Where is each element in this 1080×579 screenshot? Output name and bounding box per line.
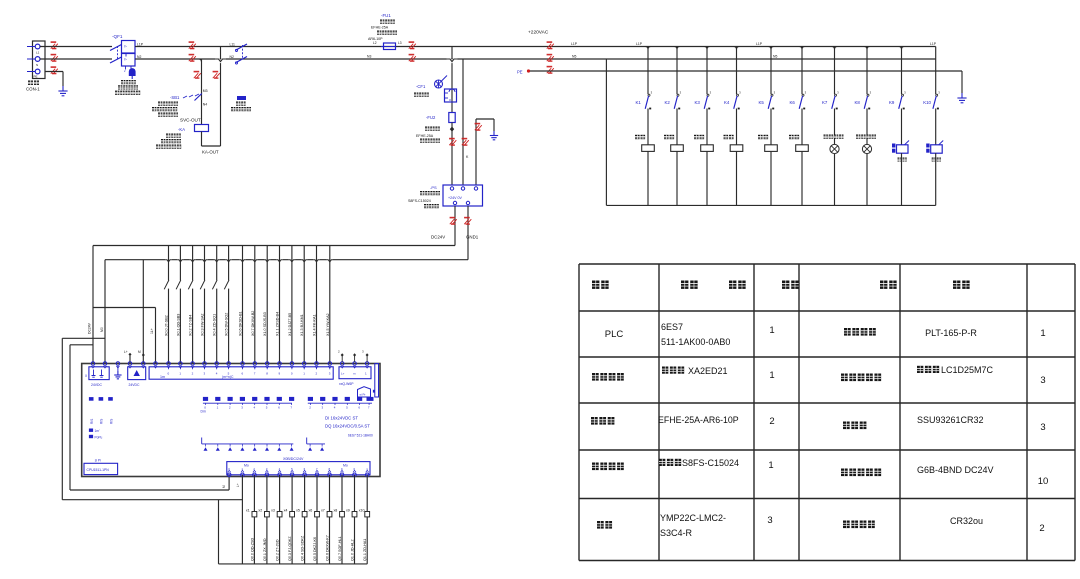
wire coil return rail <box>606 204 935 206</box>
svg-text:9: 9 <box>279 372 281 376</box>
svg-text:S8FS-C15024: S8FS-C15024 <box>408 199 431 203</box>
svg-text:PE: PE <box>34 75 38 79</box>
red label on PE <box>547 66 554 74</box>
svg-text:M0: M0 <box>100 327 104 332</box>
wire input X10 <box>288 246 292 364</box>
svg-text:GND1: GND1 <box>466 235 479 240</box>
svg-text:K5: K5 <box>759 100 765 105</box>
svg-text:5: 5 <box>346 406 348 410</box>
wire 0V rail <box>105 259 468 261</box>
svg-text:S3C4-R: S3C4-R <box>660 528 693 538</box>
wire fuse to PSU <box>451 123 453 186</box>
svg-text:1m: 1m <box>160 375 165 379</box>
svg-text:N4: N4 <box>203 103 207 107</box>
svg-text:K4: K4 <box>724 100 730 105</box>
ground (input PE) <box>58 86 67 96</box>
svg-text:K2: K2 <box>665 100 671 105</box>
svg-text:N3: N3 <box>367 55 371 59</box>
wire hop over N <box>447 59 458 62</box>
wire loop bottom <box>201 132 203 147</box>
contactor branch K9 <box>889 47 909 206</box>
svg-text:M: M <box>138 350 141 354</box>
svg-text:o: o <box>449 98 451 102</box>
svg-text:3: 3 <box>710 91 712 95</box>
svg-text:3: 3 <box>774 91 776 95</box>
svg-text:si Pr: si Pr <box>360 393 366 397</box>
svg-text:-PS: -PS <box>430 185 437 190</box>
DQ pin bracket <box>307 438 325 451</box>
wire loop 0V to bottom rail <box>62 337 105 339</box>
wire L rail <box>135 46 936 48</box>
ground (PE right) <box>957 93 966 103</box>
wire 0V drop <box>104 260 106 364</box>
PLC U1 outline <box>82 364 380 477</box>
svg-text:K8: K8 <box>855 100 861 105</box>
svg-text:si Pr: si Pr <box>95 459 102 463</box>
svg-text:XA2ED21: XA2ED21 <box>688 366 728 376</box>
svg-text:6ES7 521-1BH00: 6ES7 521-1BH00 <box>348 434 373 438</box>
svg-text:1: 1 <box>1040 328 1045 339</box>
svg-text:Dm: Dm <box>201 410 206 414</box>
svg-text:CON-1: CON-1 <box>26 87 40 92</box>
svg-text:PLT-165-P-R: PLT-165-P-R <box>925 328 977 338</box>
DI pin bracket <box>202 438 294 451</box>
DI LED group <box>201 397 295 414</box>
wire SB1 drop <box>201 59 203 125</box>
svg-text:L11: L11 <box>230 43 236 47</box>
svg-text:I>: I> <box>124 58 127 62</box>
svg-text:x6: x6 <box>309 509 313 513</box>
svg-text:3: 3 <box>322 406 324 410</box>
svg-text:M3: M3 <box>203 89 208 93</box>
svg-text:1: 1 <box>769 325 774 336</box>
svg-text:x8: x8 <box>334 509 338 513</box>
svg-text:+24V 0V: +24V 0V <box>448 196 462 200</box>
wire input X9 <box>276 246 280 364</box>
svg-text:6: 6 <box>358 406 360 410</box>
ground (PSU PE) <box>490 131 498 140</box>
wire loop right riser <box>220 47 222 147</box>
svg-text:SVC-OUT: SVC-OUT <box>180 118 201 123</box>
svg-text:3: 3 <box>362 350 364 354</box>
svg-text:4: 4 <box>279 467 281 471</box>
svg-text:L1: L1 <box>36 51 40 55</box>
wire output Q2 with relay contact x3 <box>271 475 282 564</box>
svg-text:L2: L2 <box>373 41 377 45</box>
svg-text:0: 0 <box>354 467 356 471</box>
svg-text:L+: L+ <box>236 483 240 487</box>
svg-text:X0.6 DKSD-B1: X0.6 DKSD-B1 <box>239 311 243 336</box>
svg-text:3: 3 <box>204 372 206 376</box>
red labels above PSU <box>449 138 456 146</box>
contactor branch K10 <box>923 47 943 206</box>
svg-text:K7: K7 <box>822 100 828 105</box>
wire aux branch <box>93 307 156 309</box>
red wire labels at source <box>51 41 58 49</box>
svg-text:6ES7: 6ES7 <box>661 322 683 332</box>
stub L+ <box>129 356 131 364</box>
svg-text:X0B/DC/24V: X0B/DC/24V <box>283 457 304 461</box>
svg-text:L3: L3 <box>398 41 402 45</box>
svg-text:3: 3 <box>1040 375 1045 386</box>
svg-text:X0.7 DKXW-B2: X0.7 DKXW-B2 <box>251 311 255 336</box>
PLC right bar <box>375 364 379 398</box>
wire input X7 <box>251 246 255 364</box>
wire output Q3 with relay contact x4 <box>284 475 295 564</box>
svg-text:3: 3 <box>1040 422 1045 433</box>
wire output Q5 with relay contact x6 <box>309 475 320 564</box>
svg-text:YMP22C-LMC2-: YMP22C-LMC2- <box>660 513 726 523</box>
svg-text:7: 7 <box>254 372 256 376</box>
svg-text:1m': 1m' <box>95 429 100 433</box>
wire hop on N rail <box>215 59 226 62</box>
wire M feed <box>142 260 144 364</box>
wire input X11 <box>300 246 304 364</box>
wire input X2 <box>188 246 193 364</box>
svg-text:24VDC: 24VDC <box>129 383 140 387</box>
svg-text:4: 4 <box>254 406 256 410</box>
svg-text:1: 1 <box>768 460 773 471</box>
ground (PLC) <box>117 366 119 371</box>
contactor branch K3 <box>694 47 713 206</box>
svg-text:X1.5 YW-KA2: X1.5 YW-KA2 <box>326 313 330 336</box>
svg-text:X0.4 ZD-SQ1: X0.4 ZD-SQ1 <box>213 314 217 336</box>
wire N rail <box>135 58 936 60</box>
svg-text:3: 3 <box>651 91 653 95</box>
svg-text:R/S: R/S <box>90 419 94 424</box>
svg-text:Q0.1 ZX-JMD: Q0.1 ZX-JMD <box>263 538 267 561</box>
svg-text:x10: x10 <box>359 509 365 513</box>
svg-text:5: 5 <box>291 467 293 471</box>
svg-text:X0.3 FW-SA2: X0.3 FW-SA2 <box>201 314 205 336</box>
contactor branch K2 <box>664 47 683 206</box>
wire output Q7 with relay contact x8 <box>334 475 345 564</box>
svg-text:x7: x7 <box>321 509 325 513</box>
svg-text:6: 6 <box>242 372 244 376</box>
svg-text:Mo: Mo <box>343 464 348 468</box>
svg-text:1L+: 1L+ <box>150 328 154 334</box>
svg-text:N2: N2 <box>137 55 141 59</box>
svg-text:3: 3 <box>938 91 940 95</box>
svg-text:x3: x3 <box>271 509 275 513</box>
svg-text:LC1D25M7C: LC1D25M7C <box>941 365 994 375</box>
wire input X4 <box>212 246 217 364</box>
svg-text:10: 10 <box>1038 476 1049 487</box>
svg-text:1: 1 <box>769 370 774 381</box>
svg-text:2: 2 <box>192 372 194 376</box>
svg-text:G6B-4BND DC24V: G6B-4BND DC24V <box>917 465 994 475</box>
fuse FU2 <box>426 113 455 123</box>
svg-text:S8FS-C15024: S8FS-C15024 <box>682 458 739 468</box>
svg-text:(m+n)C: (m+n)C <box>222 375 234 379</box>
svg-text:9: 9 <box>341 467 343 471</box>
filter CF1 <box>416 76 457 103</box>
svg-text:L1P: L1P <box>571 42 578 46</box>
fuse FU1 <box>381 13 396 50</box>
wire 24V rail <box>93 245 455 247</box>
PLC input terminal strip <box>149 367 333 379</box>
svg-text:EFHE-25A: EFHE-25A <box>371 26 389 30</box>
wire bottom return rail <box>219 563 368 565</box>
contactor branch K6 <box>789 47 808 206</box>
svg-text:3: 3 <box>805 91 807 95</box>
PLC output block <box>339 367 371 386</box>
svg-text:+220VAC: +220VAC <box>528 30 549 36</box>
svg-text:X0.5 DW-SQ2: X0.5 DW-SQ2 <box>225 313 229 336</box>
wire input X1 <box>176 246 181 364</box>
svg-text:K3: K3 <box>695 100 701 105</box>
svg-text:L1P: L1P <box>756 42 763 46</box>
svg-text:PLC: PLC <box>605 329 624 340</box>
pushbutton SB1 <box>170 94 202 101</box>
wire input X6 <box>239 246 243 364</box>
svg-text:M: M <box>222 485 226 488</box>
svg-text:Q0.2 ZT-JSD: Q0.2 ZT-JSD <box>276 539 280 561</box>
breaker QF1 <box>110 34 140 95</box>
wire input X8 <box>263 246 267 364</box>
wire hops on 0V rail <box>165 260 333 262</box>
PLC top pins <box>91 362 369 368</box>
svg-text:3: 3 <box>329 372 331 376</box>
svg-text:1: 1 <box>217 406 219 410</box>
svg-text:Q0.0 QD-ZSD: Q0.0 QD-ZSD <box>250 538 254 561</box>
output module stubs <box>338 350 369 362</box>
wire drop L to PSU <box>451 47 453 113</box>
svg-text:PE: PE <box>517 70 523 75</box>
svg-text:DI 16x24VDC ST: DI 16x24VDC ST <box>325 416 358 421</box>
svg-text:K10: K10 <box>923 100 931 105</box>
svg-text:3: 3 <box>241 406 243 410</box>
svg-text:-FU2: -FU2 <box>426 115 436 120</box>
svg-text:L+: L+ <box>341 372 345 376</box>
svg-text:3: 3 <box>266 467 268 471</box>
PE stub to ground <box>475 119 477 185</box>
svg-text:8: 8 <box>266 372 268 376</box>
svg-text:2: 2 <box>309 406 311 410</box>
PLC 24V block <box>128 367 146 387</box>
selector switch SA1 <box>235 44 247 64</box>
svg-text:I>: I> <box>124 45 127 49</box>
svg-text:x4: x4 <box>284 509 288 513</box>
memory card icon <box>358 387 371 397</box>
svg-text:L1P: L1P <box>137 43 144 47</box>
svg-text:7: 7 <box>368 406 370 410</box>
wire L1 <box>40 46 112 48</box>
terminal block CON1 <box>33 41 46 79</box>
contactor branch K8 <box>855 47 877 206</box>
svg-text:2: 2 <box>316 372 318 376</box>
svg-text:X1.0 SDJS-B3: X1.0 SDJS-B3 <box>263 312 267 336</box>
wire input X13 <box>326 246 330 364</box>
svg-text:K1: K1 <box>636 100 642 105</box>
svg-text:K: K <box>466 155 469 159</box>
contactor branch K7 <box>822 47 844 206</box>
svg-text:3: 3 <box>680 91 682 95</box>
wire DQ common <box>241 475 243 564</box>
DQ LED group <box>308 397 374 410</box>
svg-text:1: 1 <box>179 372 181 376</box>
power supply PS1 <box>430 185 483 206</box>
red wire labels mid rail <box>547 41 554 49</box>
red labels on loop wires <box>194 71 201 79</box>
svg-text:L1P: L1P <box>930 42 937 46</box>
wire output Q1 with relay contact x2 <box>258 475 269 564</box>
svg-text:-FU1: -FU1 <box>381 13 391 18</box>
svg-text:Q1.0 JD-HL2: Q1.0 JD-HL2 <box>351 539 355 561</box>
svg-text:3: 3 <box>837 91 839 95</box>
svg-text:X0.2 TZ-SB4: X0.2 TZ-SB4 <box>189 315 193 336</box>
svg-text:Q0.4 SD-SDKZ: Q0.4 SD-SDKZ <box>301 535 305 561</box>
svg-text:x2: x2 <box>258 509 262 513</box>
svg-text:1: 1 <box>241 467 243 471</box>
svg-text:3: 3 <box>767 515 772 526</box>
svg-text:2: 2 <box>124 69 126 73</box>
svg-text:Q0.6 DKXW-K7: Q0.6 DKXW-K7 <box>326 535 330 561</box>
svg-text:K9: K9 <box>889 100 895 105</box>
svg-text:DQ 16x24VDC/0.5A ST: DQ 16x24VDC/0.5A ST <box>325 424 370 429</box>
wire loop 24V to DQ pin <box>70 344 93 346</box>
svg-text:X1.2 DJZT-B5: X1.2 DJZT-B5 <box>288 313 292 336</box>
svg-text:4: 4 <box>216 372 218 376</box>
svg-text:X1.3 BJ-KM1: X1.3 BJ-KM1 <box>300 314 304 336</box>
svg-text:24VDC: 24VDC <box>91 383 102 387</box>
svg-text:3: 3 <box>904 91 906 95</box>
svg-text:xxQ-W6P: xxQ-W6P <box>339 382 354 386</box>
wire output Q4 with relay contact x5 <box>296 475 307 564</box>
svg-text:X0.0 JT-SB2: X0.0 JT-SB2 <box>165 315 169 336</box>
svg-text:R/S: R/S <box>100 419 104 424</box>
wire output Q0 with relay contact x1 <box>246 475 257 564</box>
svg-text:2: 2 <box>338 350 340 354</box>
svg-text:m: m <box>353 372 356 376</box>
svg-text:EFHE-25A-AR6-10P: EFHE-25A-AR6-10P <box>658 415 739 425</box>
relay coil KA0 <box>178 125 209 133</box>
svg-text:X: X <box>85 374 88 378</box>
wire drop N to PSU <box>462 59 464 185</box>
status LEDs <box>89 397 113 439</box>
wires below PSU <box>454 206 456 246</box>
svg-text:3: 3 <box>739 91 741 95</box>
svg-text:x1: x1 <box>246 509 250 513</box>
svg-text:-KA: -KA <box>178 127 185 132</box>
svg-text:0: 0 <box>291 372 293 376</box>
svg-text:-SB1: -SB1 <box>170 95 180 100</box>
wire output Q6 with relay contact x7 <box>321 475 332 564</box>
svg-text:SSU93261CR32: SSU93261CR32 <box>917 415 984 425</box>
svg-text:Q0.3 FJ-QDKZ: Q0.3 FJ-QDKZ <box>288 536 292 561</box>
contactor branch K5 <box>758 47 777 206</box>
svg-text:K6: K6 <box>790 100 796 105</box>
wire input X3 <box>200 246 205 364</box>
wire input X12 <box>313 246 317 364</box>
svg-text:6: 6 <box>278 406 280 410</box>
svg-text:1: 1 <box>366 467 368 471</box>
svg-text:EFHE-25A: EFHE-25A <box>416 134 434 138</box>
svg-text:DC24V: DC24V <box>88 322 92 334</box>
svg-text:N5: N5 <box>773 55 777 59</box>
svg-text:DC24V: DC24V <box>431 235 445 240</box>
svg-text:5: 5 <box>266 406 268 410</box>
svg-text:KA-OUT: KA-OUT <box>202 150 219 155</box>
svg-text:X1.1 ZXSD-B4: X1.1 ZXSD-B4 <box>276 312 280 336</box>
svg-text:N: N <box>36 63 38 67</box>
svg-text:511-1AK00-0AB0: 511-1AK00-0AB0 <box>661 337 730 347</box>
wire 24V drop <box>92 246 94 364</box>
svg-text:Q1.1 ZD-HA1: Q1.1 ZD-HA1 <box>363 539 367 561</box>
contactor branch K4 <box>724 47 743 206</box>
node branch from N <box>199 59 202 62</box>
svg-text:-CF1: -CF1 <box>416 84 426 89</box>
svg-text:N2: N2 <box>230 55 234 59</box>
wire input X0 <box>164 246 169 364</box>
wire N <box>40 58 112 60</box>
svg-text:Mo: Mo <box>244 464 249 468</box>
svg-text:2: 2 <box>253 467 255 471</box>
contactor branch K1 <box>635 47 654 206</box>
svg-text:N5: N5 <box>572 55 576 59</box>
svg-text:CR32ou: CR32ou <box>950 516 983 526</box>
BOM table <box>579 264 1075 561</box>
svg-text:PoPu: PoPu <box>95 436 103 440</box>
svg-text:-QF1: -QF1 <box>112 34 123 39</box>
PLC bottom terminal strip <box>227 457 370 477</box>
svg-text:L+: L+ <box>124 350 128 354</box>
svg-text:1: 1 <box>365 372 367 376</box>
svg-text:x5: x5 <box>296 509 300 513</box>
svg-text:0: 0 <box>168 372 170 376</box>
svg-text:0: 0 <box>228 467 230 471</box>
svg-text:7: 7 <box>316 467 318 471</box>
svg-text:CPU1511-1PN: CPU1511-1PN <box>87 468 110 472</box>
svg-text:Q0.5 DKZJ-K6: Q0.5 DKZJ-K6 <box>313 537 317 561</box>
svg-text:7: 7 <box>290 406 292 410</box>
svg-text:4: 4 <box>334 406 336 410</box>
svg-text:X0.1 QD-SB3: X0.1 QD-SB3 <box>176 314 180 336</box>
CPU designation <box>84 459 118 475</box>
red wire labels after fuse <box>409 41 416 49</box>
svg-text:R/S: R/S <box>109 419 113 424</box>
red wire labels before KM loop <box>189 41 196 49</box>
wire PE rail <box>530 70 962 72</box>
wire input X5 <box>224 246 229 364</box>
wire PE to ground <box>45 71 63 73</box>
svg-text:3: 3 <box>870 91 872 95</box>
wire output Q8 with relay contact x9 <box>346 475 357 564</box>
svg-text:8: 8 <box>329 467 331 471</box>
svg-text:2: 2 <box>1039 523 1044 534</box>
svg-text:2: 2 <box>229 406 231 410</box>
PLC PSU block <box>85 367 109 387</box>
svg-text:1: 1 <box>303 372 305 376</box>
svg-text:x9: x9 <box>346 509 350 513</box>
svg-text:L1P: L1P <box>636 42 643 46</box>
svg-text:2: 2 <box>769 416 774 427</box>
svg-text:6: 6 <box>304 467 306 471</box>
wire N drop to return rail <box>605 59 607 205</box>
svg-text:Q0.7 SGF-HL1: Q0.7 SGF-HL1 <box>338 536 342 561</box>
svg-text:X1.4 FK-KA1: X1.4 FK-KA1 <box>313 314 317 336</box>
wire output Q9 with relay contact x10 <box>359 475 370 564</box>
